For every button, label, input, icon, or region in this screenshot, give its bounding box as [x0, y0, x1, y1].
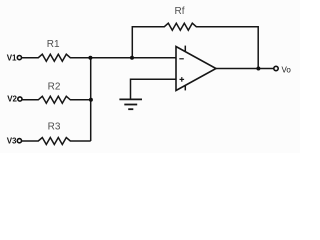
svg-text:R1: R1	[47, 39, 60, 50]
svg-text:Vo: Vo	[282, 66, 292, 75]
svg-text:V1: V1	[7, 53, 17, 62]
svg-text:R3: R3	[48, 122, 61, 133]
svg-text:Rf: Rf	[175, 6, 185, 17]
svg-text:R2: R2	[48, 82, 61, 93]
svg-text:V3: V3	[7, 136, 17, 145]
svg-text:V2: V2	[7, 95, 17, 104]
